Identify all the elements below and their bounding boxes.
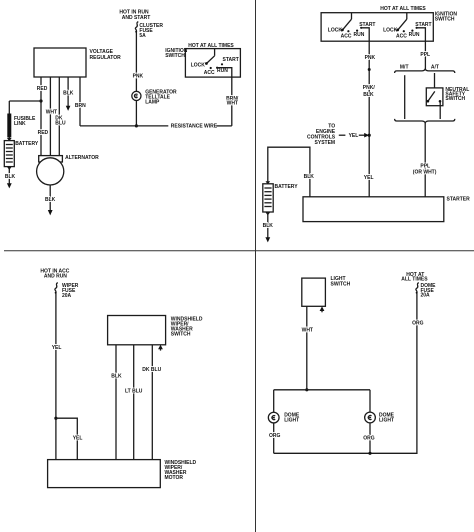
branch YEL to engine controls system (307, 124, 369, 146)
battery (left) (4, 138, 39, 167)
M/T A/T brace (lower) (395, 119, 455, 123)
wire A/T branch to neutral safety switch (434, 73, 436, 92)
wire PPL (ignition to M/T-A/T split) (417, 28, 431, 69)
wire BRN (regulator to resistance wire) (75, 77, 86, 126)
wire lamp to resistance wire (135, 101, 137, 126)
svg-text:DK BLU: DK BLU (142, 367, 161, 373)
feed label HOT AT ALL TIMES (401, 272, 428, 283)
svg-text:(OR WHT): (OR WHT) (413, 170, 437, 176)
svg-text:LIGHT: LIGHT (379, 417, 394, 423)
wire YEL (fuse to wiper motor) (52, 294, 62, 460)
vertical quadrant divider (255, 0, 257, 532)
svg-text:5A: 5A (139, 33, 146, 39)
horizontal quadrant divider (4, 250, 474, 252)
junction dot WHT to dome feed wire (305, 388, 308, 391)
junction dot on resistance wire (135, 124, 138, 127)
svg-text:BLU: BLU (55, 120, 66, 126)
wire ORG (fuse to dome lights) (274, 294, 424, 454)
svg-text:RUN: RUN (217, 68, 228, 74)
svg-text:WHT: WHT (227, 101, 238, 107)
svg-text:ACC: ACC (396, 34, 407, 40)
svg-text:SWITCH: SWITCH (165, 53, 185, 59)
svg-text:YEL: YEL (73, 435, 83, 441)
svg-text:SWITCH: SWITCH (435, 17, 455, 23)
wire BLK (battery to starter) (268, 147, 314, 197)
svg-text:YEL: YEL (349, 133, 359, 139)
starter motor box (303, 196, 470, 221)
ground (battery right) (265, 237, 270, 242)
wiper fuse 20A (55, 283, 79, 299)
fusible link (9, 114, 36, 138)
wire M/T branch (404, 75, 406, 119)
svg-text:A/T: A/T (431, 65, 439, 71)
wire BLK (alternator to ground) (45, 185, 56, 210)
svg-text:RESISTANCE WIRE: RESISTANCE WIRE (171, 124, 218, 130)
wire BLK (battery to ground) (263, 212, 274, 238)
svg-text:ORG: ORG (269, 433, 281, 439)
svg-text:YEL: YEL (364, 175, 374, 181)
dome light 2 (365, 412, 395, 423)
cluster fuse 5A (135, 22, 163, 40)
svg-text:20A: 20A (62, 293, 72, 299)
ground (battery left) (7, 183, 12, 188)
svg-text:YEL: YEL (52, 345, 62, 351)
svg-text:LT BLU: LT BLU (125, 389, 143, 395)
dome light 1 (268, 412, 300, 423)
alternator G1 (37, 155, 99, 185)
svg-text:SWITCH: SWITCH (171, 331, 191, 337)
svg-text:RUN: RUN (409, 32, 420, 38)
svg-text:STARTER: STARTER (447, 196, 471, 202)
svg-text:ALTERNATOR: ALTERNATOR (65, 155, 99, 161)
wire NSS to lower brace (439, 101, 441, 119)
ground (alternator) (48, 210, 53, 215)
wire DK BLU (regulator to alternator) (55, 77, 66, 156)
wire BLK (switch to motor) (111, 345, 122, 460)
svg-text:BLK: BLK (111, 374, 122, 380)
svg-text:BATTERY: BATTERY (15, 141, 39, 147)
svg-text:HOT AT ALL TIMES: HOT AT ALL TIMES (380, 6, 426, 12)
windshield wiper/washer switch box (108, 316, 203, 345)
feed label HOT IN ACC AND RUN (40, 269, 69, 280)
svg-text:BLK: BLK (304, 174, 315, 180)
case ground arrow (light switch) (320, 306, 325, 311)
svg-text:LINK: LINK (14, 121, 26, 127)
wire RED (regulator to alternator, via junction) (37, 77, 49, 156)
svg-text:BRN: BRN (75, 103, 86, 109)
ignition switch (top-left quadrant) (165, 43, 240, 77)
wire BLK (battery to ground) (5, 167, 16, 184)
svg-text:SWITCH: SWITCH (331, 281, 351, 287)
svg-text:BLK: BLK (263, 223, 274, 229)
svg-text:BLK: BLK (363, 92, 374, 98)
svg-text:ACC: ACC (341, 34, 352, 40)
svg-text:HOT AT ALL TIMES: HOT AT ALL TIMES (188, 43, 234, 49)
light switch box (302, 276, 351, 306)
svg-text:RED: RED (38, 130, 49, 136)
svg-text:PNK: PNK (365, 55, 376, 61)
ground (regulator BLK) (66, 106, 71, 111)
svg-text:RUN: RUN (354, 32, 365, 38)
wire WHT (regulator to alternator) (46, 77, 57, 156)
junction dot on RED wire (39, 99, 42, 102)
feed label HOT IN RUN AND START (119, 9, 150, 21)
wire to fusible link (9, 100, 41, 102)
wire PPL (OR WHT) to starter (413, 123, 437, 197)
svg-text:REGULATOR: REGULATOR (90, 55, 122, 61)
svg-text:M/T: M/T (400, 65, 409, 71)
wire DK BLU (switch to motor) (142, 345, 161, 460)
svg-text:BLK: BLK (5, 174, 16, 180)
svg-text:20A: 20A (421, 293, 431, 299)
svg-text:PNK: PNK (133, 74, 144, 80)
wire fusible link to battery (8, 138, 10, 141)
windshield wiper/washer motor box (48, 460, 197, 488)
junction dot (dome light 2 to bottom wire) (368, 452, 371, 455)
voltage regulator U (box) (34, 48, 121, 77)
svg-text:SYSTEM: SYSTEM (315, 140, 336, 146)
svg-text:LOCK: LOCK (383, 27, 398, 33)
wire LT BLU (switch to motor) (125, 345, 143, 460)
svg-text:START: START (223, 57, 239, 63)
dome feed top wire (273, 390, 275, 413)
resistance wire (80, 124, 232, 130)
svg-text:AND START: AND START (122, 15, 151, 21)
neutral safety switch (426, 87, 469, 106)
svg-text:PNK/: PNK/ (363, 85, 376, 91)
svg-text:ORG: ORG (412, 321, 424, 327)
wire PNK (fuse to telltale lamp) (133, 33, 144, 92)
ignition switch (top-right quadrant) (321, 6, 457, 41)
svg-text:PPL: PPL (420, 52, 430, 58)
svg-text:WHT: WHT (302, 328, 313, 334)
wire BRN/WHT (ignition RUN to resistance wire) (217, 68, 239, 126)
svg-text:ORG: ORG (363, 435, 375, 441)
svg-text:RED: RED (37, 86, 48, 92)
svg-text:LOCK: LOCK (328, 27, 343, 33)
svg-text:BLK: BLK (63, 90, 74, 96)
svg-text:AND RUN: AND RUN (44, 274, 67, 280)
svg-text:MOTOR: MOTOR (165, 475, 184, 481)
wire ORG (dome light 1) (269, 423, 281, 453)
svg-text:BLK: BLK (45, 197, 56, 203)
svg-text:START: START (415, 22, 431, 28)
wire ORG (dome light 2) (363, 423, 375, 454)
case ground arrow (wiper switch) (158, 345, 163, 350)
svg-text:ACC: ACC (204, 70, 215, 76)
wire PNK / PNK-BLK / YEL (ignition to starter) (361, 28, 375, 197)
wire BLK (regulator to ground) (63, 77, 74, 106)
M/T A/T brace (upper) (395, 65, 455, 73)
wire YEL branch to motor (56, 418, 83, 459)
svg-text:LAMP: LAMP (145, 99, 160, 105)
svg-text:SWITCH: SWITCH (445, 96, 465, 102)
wire WHT (light switch to dome lights) (302, 306, 313, 390)
svg-text:BATTERY: BATTERY (275, 184, 299, 190)
battery (right) (263, 181, 298, 212)
dome fuse 20A (416, 283, 436, 299)
svg-text:LIGHT: LIGHT (284, 417, 299, 423)
svg-text:ALL TIMES: ALL TIMES (401, 276, 428, 282)
generator telltale lamp (132, 89, 177, 105)
svg-text:LOCK: LOCK (191, 63, 206, 69)
